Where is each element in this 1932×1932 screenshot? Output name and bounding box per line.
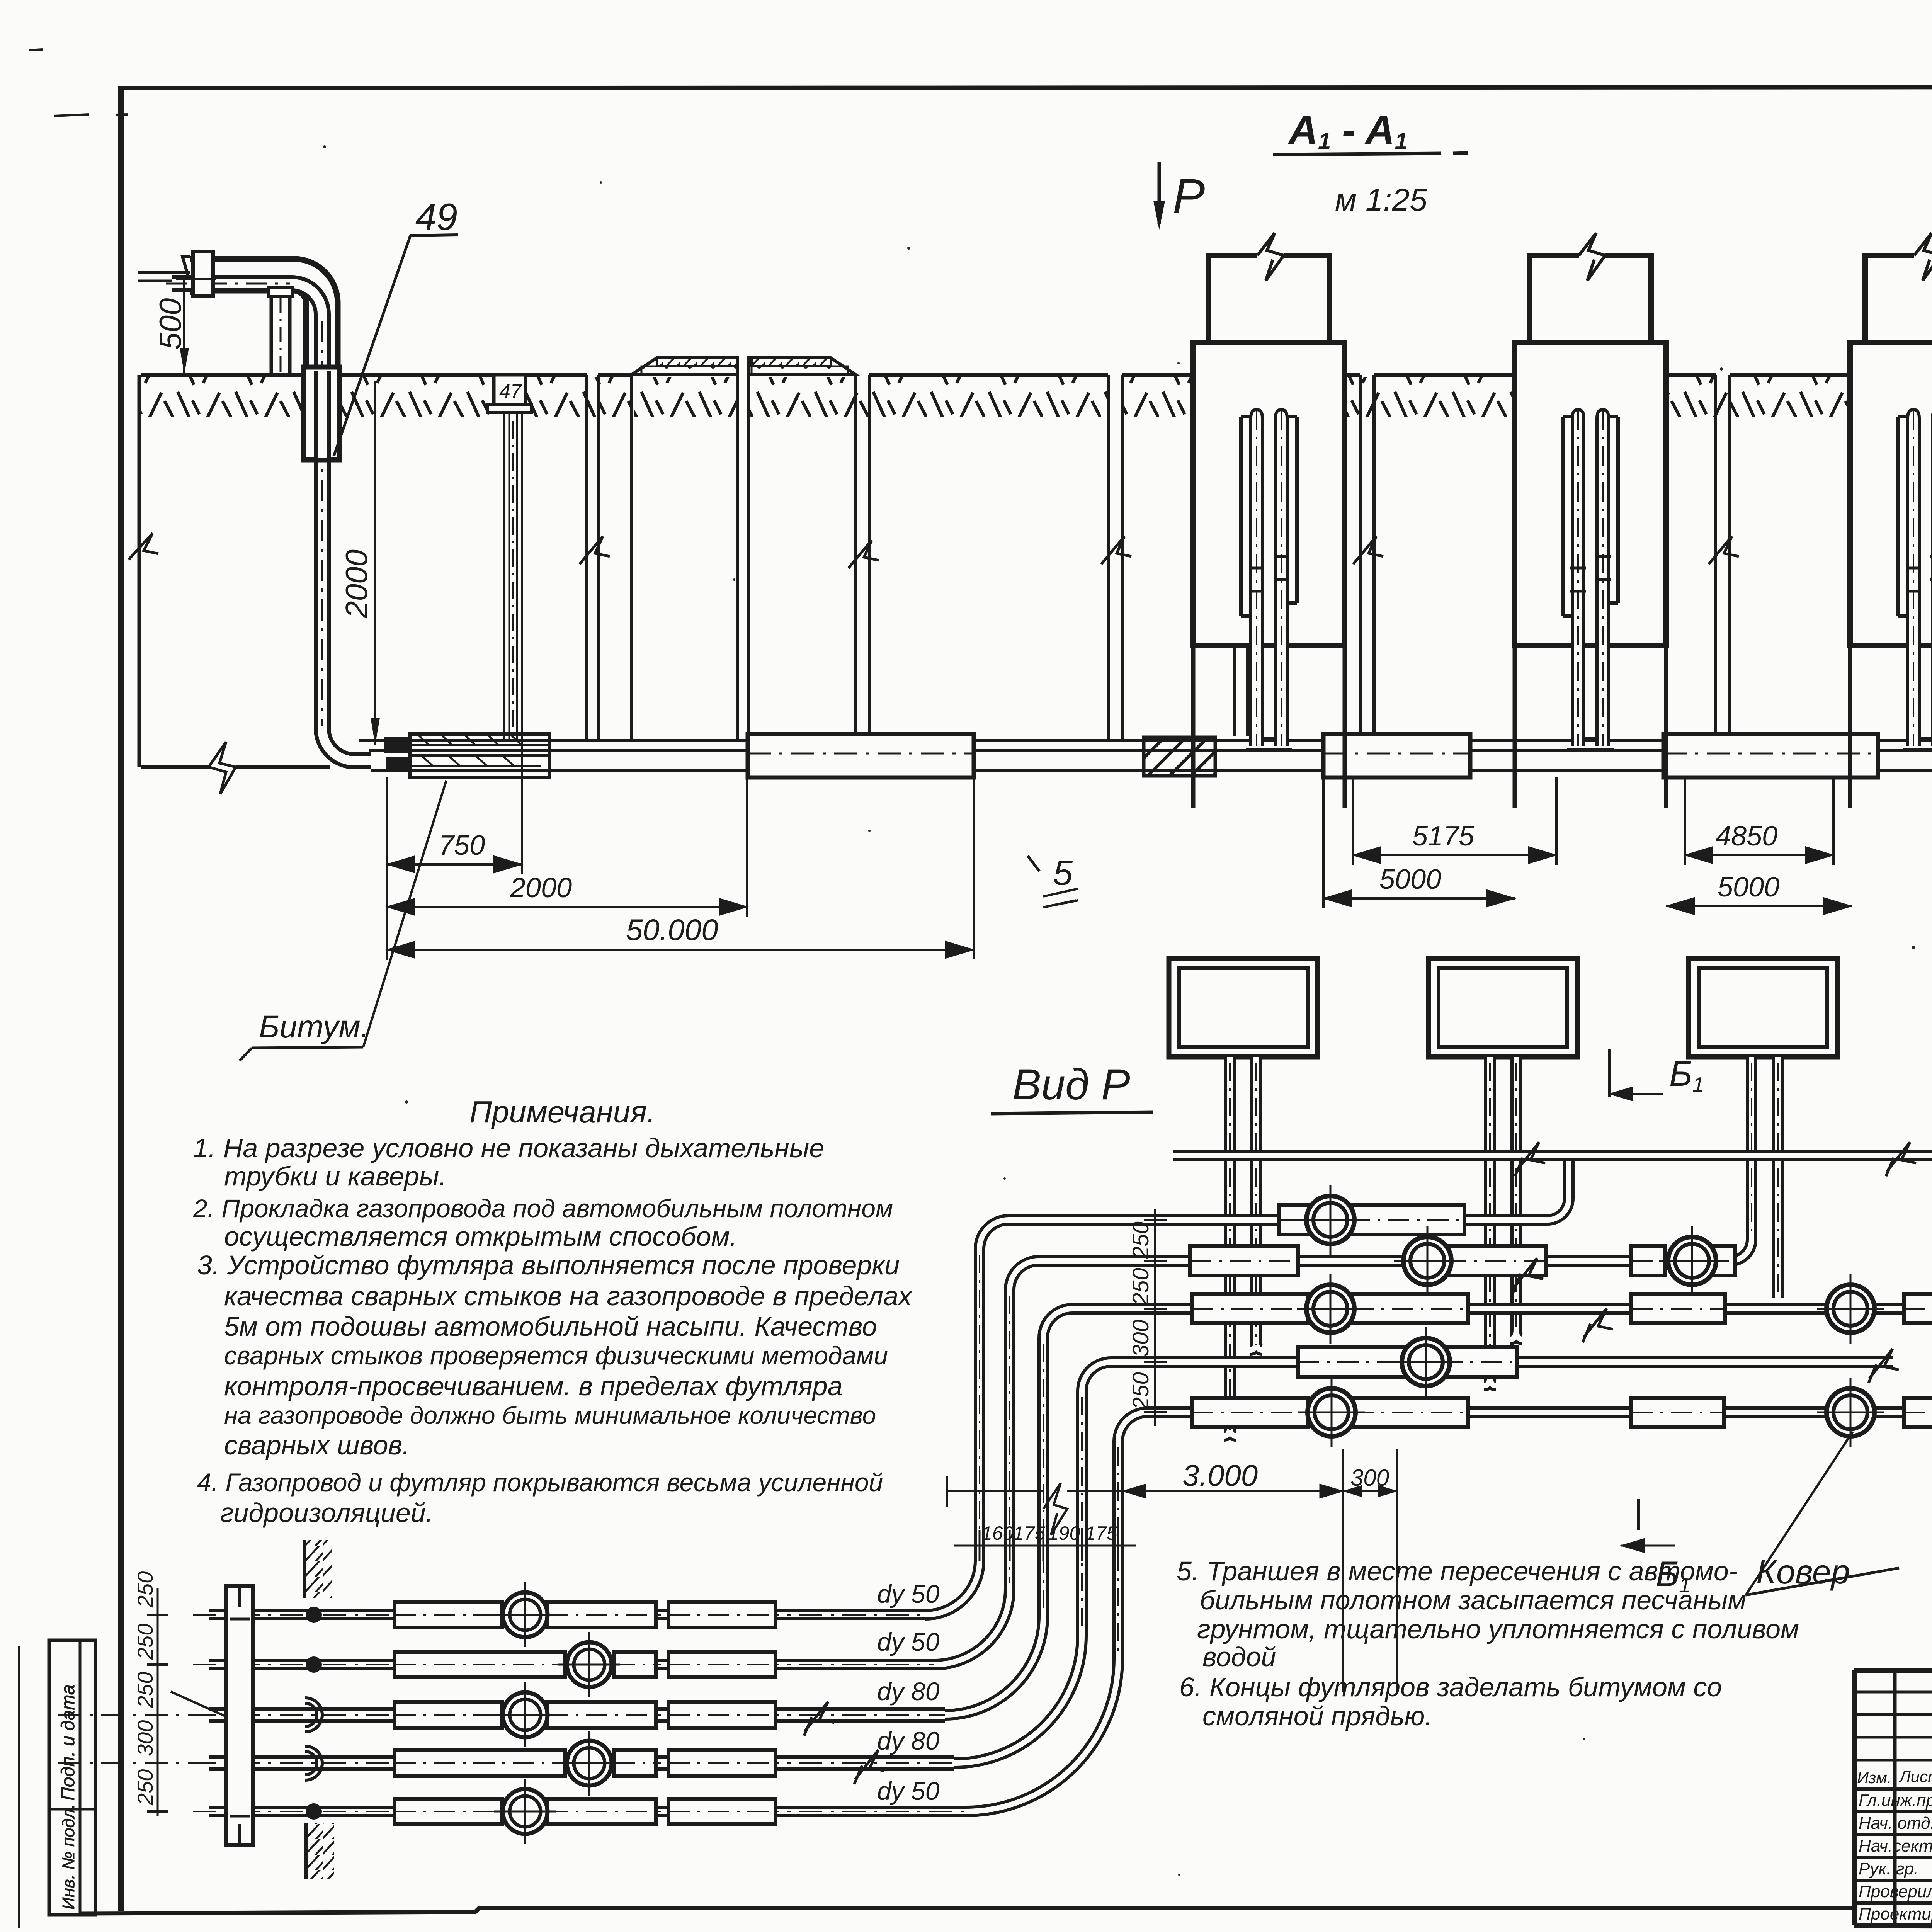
foundation pedestal 3 [1850, 342, 1932, 646]
sleeve 4420-4490 row 3263 [1708, 1246, 1735, 1276]
riser bottom tee 3 [1903, 739, 1932, 750]
svg-text:трубки и каверы.: трубки и каверы. [224, 1161, 447, 1191]
drop pipes under box 2 [1484, 1057, 1496, 1386]
trench pair 1 [580, 375, 610, 739]
column break mark 3 [1914, 233, 1932, 281]
riser couplings 2 [1570, 556, 1611, 591]
cover box pad 2 [1429, 958, 1577, 1057]
bundle sleeve S1 [748, 734, 974, 777]
valve at 4789,3387 [1827, 1285, 1874, 1333]
pedestal walls below 2 [1515, 646, 1666, 808]
row2 pipe [1050, 1233, 1752, 1261]
bundle valve 1359,4438 [503, 1692, 548, 1737]
trench bottom line left [141, 765, 330, 769]
trench pair 5 [1709, 375, 1739, 734]
svg-text:250: 250 [133, 1624, 157, 1660]
svg-text:250: 250 [1128, 1268, 1153, 1306]
wall hatch top [304, 1540, 332, 1598]
sleeve 3310-3400 row 3157 [1279, 1205, 1314, 1235]
stub pipe to ground [268, 288, 293, 375]
foundation pedestal 2 [1515, 342, 1666, 646]
main pipe bundle lines [359, 740, 1932, 770]
label 49 [334, 196, 458, 456]
flange plate [226, 1586, 253, 1845]
ext lines left dims [386, 777, 388, 960]
svg-text:250: 250 [133, 1571, 157, 1608]
svg-text:750: 750 [439, 830, 485, 861]
title block staff rows [1854, 1812, 1932, 1903]
svg-text:2. Прокладка газопровода под а: 2. Прокладка газопровода под автомобильн… [193, 1194, 893, 1223]
note5 reference mark [1028, 853, 1078, 907]
bitum wrap sleeve [410, 734, 549, 777]
svg-text:50.000: 50.000 [626, 913, 718, 947]
svg-text:2000: 2000 [339, 549, 374, 619]
break mark on left wall [129, 533, 158, 560]
svg-text:Нач.сект.: Нач.сект. [1859, 1837, 1932, 1855]
dim 500 [153, 277, 216, 374]
svg-text:300: 300 [133, 1720, 157, 1756]
svg-text:Лист: Лист [1898, 1767, 1932, 1786]
sleeve 3085-3385 row 3655 [1192, 1398, 1308, 1427]
dimensions A group [387, 740, 1932, 960]
bypass manifold pipe [1173, 1150, 1932, 1161]
sheet border top [118, 87, 1932, 88]
foundation column 3 [1865, 255, 1932, 342]
flange plate [193, 252, 213, 296]
sleeve 3730-3925 row 3525 [1441, 1347, 1517, 1377]
dimension 750 [387, 863, 522, 866]
label bitum [240, 781, 446, 1061]
svg-text:5. Траншея в месте пересече: 5. Траншея в месте пересечения с автомо- [1177, 1556, 1738, 1586]
svg-text:3. Устройство футляра выполняе: 3. Устройство футляра выполняется после … [197, 1250, 900, 1280]
bundle sleeve S3 [1663, 734, 1878, 777]
svg-text:сварных стыков проверяется физ: сварных стыков проверяется физическими м… [224, 1341, 888, 1370]
svg-text:49: 49 [415, 196, 457, 238]
valve at 3443,3157 [1306, 1196, 1354, 1244]
svg-text:Гл.инж.пр.: Гл.инж.пр. [1859, 1791, 1932, 1810]
casing pipe horizontal and elbow [190, 275, 322, 366]
sleeve 3359-3636 row 3525 [1298, 1347, 1405, 1377]
valve at 4379,3263 [1668, 1237, 1716, 1285]
bundle row 3 pipe [209, 1707, 945, 1723]
marker box 47 [488, 375, 531, 740]
inner pipe in casing [172, 284, 371, 761]
cover box pad 3 [1689, 958, 1837, 1057]
svg-text:Примечания.: Примечания. [469, 1095, 655, 1129]
margin edge tick [18, 1646, 20, 1928]
road pad left 2 [748, 358, 856, 375]
svg-text:Нач. отд.: Нач. отд. [1859, 1814, 1932, 1833]
column break mark 2 [1579, 233, 1605, 281]
svg-text:Подп. и дата: Подп. и дата [58, 1685, 78, 1801]
load arrow P [1153, 162, 1205, 230]
svg-text:250: 250 [133, 1672, 157, 1708]
svg-text:47: 47 [499, 380, 522, 403]
drop pipes under box 3 [1746, 1057, 1757, 1233]
margin stamp row split [49, 1808, 95, 1811]
riser pipes 1 [1251, 410, 1262, 746]
svg-text:водой: водой [1202, 1642, 1276, 1672]
well casing 1 [1241, 417, 1297, 616]
riser pipes 2 [1572, 410, 1584, 746]
pedestal walls below 3 [1850, 646, 1932, 808]
casing sleeve below ground [304, 367, 339, 460]
foundations group [1193, 233, 1932, 808]
foundation column 2 [1530, 255, 1651, 342]
cover box pad 1 [1169, 958, 1318, 1057]
sleeve 4928-5104 row 3387 [1904, 1294, 1932, 1323]
svg-text:175: 175 [1085, 1522, 1117, 1544]
sheet border left [118, 88, 124, 1911]
pad edge walls [631, 358, 869, 739]
valve at 3694,3263 [1403, 1237, 1451, 1285]
svg-text:осуществляется открытым способ: осуществляется открытым способом. [224, 1221, 737, 1252]
feed pipe left thin [138, 272, 190, 281]
bundle valve 1525,4308 [567, 1642, 612, 1687]
svg-text:5175: 5175 [1412, 821, 1475, 852]
bundle row 4 pipe [209, 1755, 954, 1771]
svg-text:6. Концы футляров заделать: 6. Концы футляров заделать битумом со [1179, 1672, 1722, 1702]
section mark B1 lower [1621, 1545, 1675, 1547]
svg-text:5м от подошвы автомобильной на: 5м от подошвы автомобильной насыпи. Каче… [224, 1311, 877, 1342]
section mark B1 upper [1609, 1093, 1663, 1095]
svg-text:Проектир.: Проектир. [1859, 1905, 1932, 1923]
svg-text:Рук. гр.: Рук. гр. [1859, 1859, 1918, 1878]
connecting elbow pipe v5 [966, 1412, 1163, 1811]
svg-text:2000: 2000 [510, 872, 572, 903]
svg-text:гидроизоляцией.: гидроизоляцией. [220, 1498, 433, 1528]
svg-text:3.000: 3.000 [1182, 1458, 1258, 1492]
bundle valve 1359,4688 [503, 1789, 548, 1834]
sleeve 3085-3385 row 3387 [1192, 1294, 1308, 1323]
svg-text:смоляной прядью.: смоляной прядью. [1202, 1701, 1432, 1731]
svg-text:250: 250 [1128, 1221, 1153, 1259]
dimension 2000 [387, 906, 747, 908]
well casing 3 [1898, 417, 1932, 616]
foundation column 1 [1208, 255, 1330, 342]
dimension 5000 [1666, 905, 1852, 907]
dim 2000 vertical [339, 381, 380, 745]
pedestal walls below 1 [1193, 646, 1345, 808]
svg-text:контроля-просвечиванием. в пр: контроля-просвечиванием. в пределах футл… [224, 1371, 843, 1401]
casing cut end [182, 256, 193, 294]
road crossing hatch block [1144, 737, 1215, 776]
sleeve 3740-4000 row 3263 [1445, 1246, 1546, 1276]
vidP left dim column [1154, 1209, 1156, 1426]
well casing 2 [1563, 417, 1618, 616]
dimension 50.000 [387, 949, 974, 951]
svg-text:250: 250 [133, 1769, 157, 1806]
trench pair 4 [1353, 375, 1383, 734]
column break mark 1 [1257, 233, 1284, 281]
ground line segments [141, 373, 1932, 377]
connecting elbow pipe v3 [945, 1309, 1088, 1715]
wall hatch bottom [306, 1823, 334, 1879]
pipe spacing dims 160 175 190 175 [954, 1545, 1136, 1547]
sleeve 3490-3790 row 3157 [1349, 1205, 1464, 1235]
svg-text:бильным полотном засыпается: бильным полотном засыпается песчаным [1200, 1585, 1746, 1615]
svg-text:dу 50: dу 50 [877, 1628, 940, 1656]
bitum seal blobs [384, 737, 415, 772]
break marks pads walls [849, 540, 879, 568]
riser pipes 3 [1908, 410, 1919, 746]
svg-text:250: 250 [1128, 1372, 1153, 1410]
scan specks [323, 145, 326, 148]
svg-text:5000: 5000 [1718, 872, 1779, 903]
row3 pipe [1084, 1303, 1932, 1315]
drop pipes under box 1 [1224, 1057, 1236, 1436]
valve at 4789,3655 [1827, 1388, 1874, 1436]
svg-text:на газопроводе должно быть мин: на газопроводе должно быть минимальное к… [224, 1401, 876, 1429]
svg-text:Проверил: Проверил [1859, 1882, 1932, 1901]
svg-text:4850: 4850 [1716, 821, 1777, 852]
svg-text:1. На разрезе условно не пока: 1. На разрезе условно не показаны дыхате… [193, 1133, 824, 1163]
sleeve 3500-3800 row 3387 [1352, 1294, 1468, 1323]
sleeve 4928-5101 row 3655 [1904, 1398, 1932, 1427]
sleeve 3500-3800 row 3655 [1352, 1398, 1468, 1427]
svg-text:сварных швов.: сварных швов. [224, 1430, 410, 1460]
row5 pipe [1159, 1406, 1932, 1418]
row4 pipe [1122, 1356, 1893, 1368]
sleeve 4222-4462 row 3655 [1631, 1398, 1724, 1427]
bundle sleeve S2 [1323, 734, 1470, 777]
svg-text:175: 175 [1013, 1522, 1046, 1544]
svg-text:Вид Р: Вид Р [1012, 1060, 1130, 1109]
margin stamp box [49, 1640, 95, 1915]
svg-text:500: 500 [153, 298, 187, 350]
bundle row 1 pipe [209, 1609, 925, 1620]
bundle valve 1359,4179 [503, 1592, 548, 1637]
svg-text:5000: 5000 [1379, 864, 1441, 895]
bundle row 2 pipe [209, 1659, 934, 1670]
valve at 3446,3655 [1308, 1388, 1355, 1436]
svg-text:dу 80: dу 80 [877, 1677, 940, 1706]
svg-text:dу 80: dу 80 [877, 1726, 940, 1755]
svg-text:dу 50: dу 50 [877, 1777, 940, 1805]
sheet border bottom [81, 1908, 1855, 1913]
trench pair 3 [1228, 375, 1258, 736]
connecting elbow pipe v2 [934, 1261, 1054, 1665]
dimension 5000 [1323, 897, 1515, 900]
dimension 4850 [1685, 854, 1833, 856]
title block columns [1895, 1670, 1932, 1925]
svg-text:качества сварных стыков на газ: качества сварных стыков на газопроводе в… [224, 1281, 913, 1311]
svg-text:м 1:25: м 1:25 [1335, 182, 1427, 218]
dim 3000 and 300 [947, 1476, 1122, 1507]
svg-text:300: 300 [1350, 1465, 1389, 1491]
left trench wall [138, 375, 141, 767]
connecting elbow pipe v4 [954, 1362, 1126, 1763]
riser couplings 1 [1249, 556, 1289, 591]
pipe centerline dashdot [166, 284, 322, 726]
riser bottom tee 2 [1567, 739, 1614, 750]
margin stamp divider [79, 1640, 82, 1915]
svg-text:Изм.: Изм. [1857, 1769, 1892, 1787]
foundation pedestal 1 [1193, 342, 1345, 646]
riser bottom tee 1 [1246, 739, 1292, 750]
title block thin revision rows [1854, 1692, 1932, 1760]
row1 pipe [1020, 1161, 1569, 1220]
valve at 3443,3387 [1306, 1285, 1354, 1333]
title block outline [1854, 1670, 1932, 1925]
ground hatch band [141, 377, 1932, 417]
bundle left dims [157, 1588, 159, 1816]
bundle row 5 pipe [209, 1806, 966, 1817]
connecting elbow pipe v1 [925, 1220, 1024, 1615]
scan speck top left [29, 49, 1932, 116]
svg-text:dу 50: dу 50 [877, 1580, 940, 1608]
break mark on trench bottom [209, 742, 236, 794]
road pad left 1 [631, 358, 738, 375]
sleeve 3080-3360 row 3263 [1190, 1246, 1298, 1276]
trench pair 2 [1101, 375, 1131, 739]
svg-text:160: 160 [981, 1522, 1014, 1544]
dimension 5175 [1353, 854, 1556, 856]
valve at 3690,3525 [1402, 1338, 1450, 1386]
riser couplings 3 [1906, 556, 1932, 591]
svg-text:4. Газопровод и футляр покрыва: 4. Газопровод и футляр покрываются весьм… [197, 1468, 883, 1497]
svg-text:A1 - A1: A1 - A1 [1287, 107, 1408, 154]
svg-text:P: P [1173, 169, 1205, 223]
svg-text:5: 5 [1053, 853, 1073, 893]
bundle valve 1525,4563 [567, 1741, 612, 1786]
svg-text:300: 300 [1128, 1320, 1153, 1357]
svg-text:Битум.: Битум. [259, 1009, 369, 1044]
centerline extensions [58, 1714, 193, 1716]
svg-text:грунтом, тщательно уплотняется: грунтом, тщательно уплотняется с поливом [1197, 1614, 1799, 1644]
svg-text:Инв. № подл.: Инв. № подл. [59, 1804, 78, 1910]
sleeve 4222-4465 row 3387 [1631, 1294, 1725, 1323]
sleeve 4222-4308 row 3263 [1631, 1246, 1665, 1276]
section title A1-A1 [1273, 107, 1468, 218]
